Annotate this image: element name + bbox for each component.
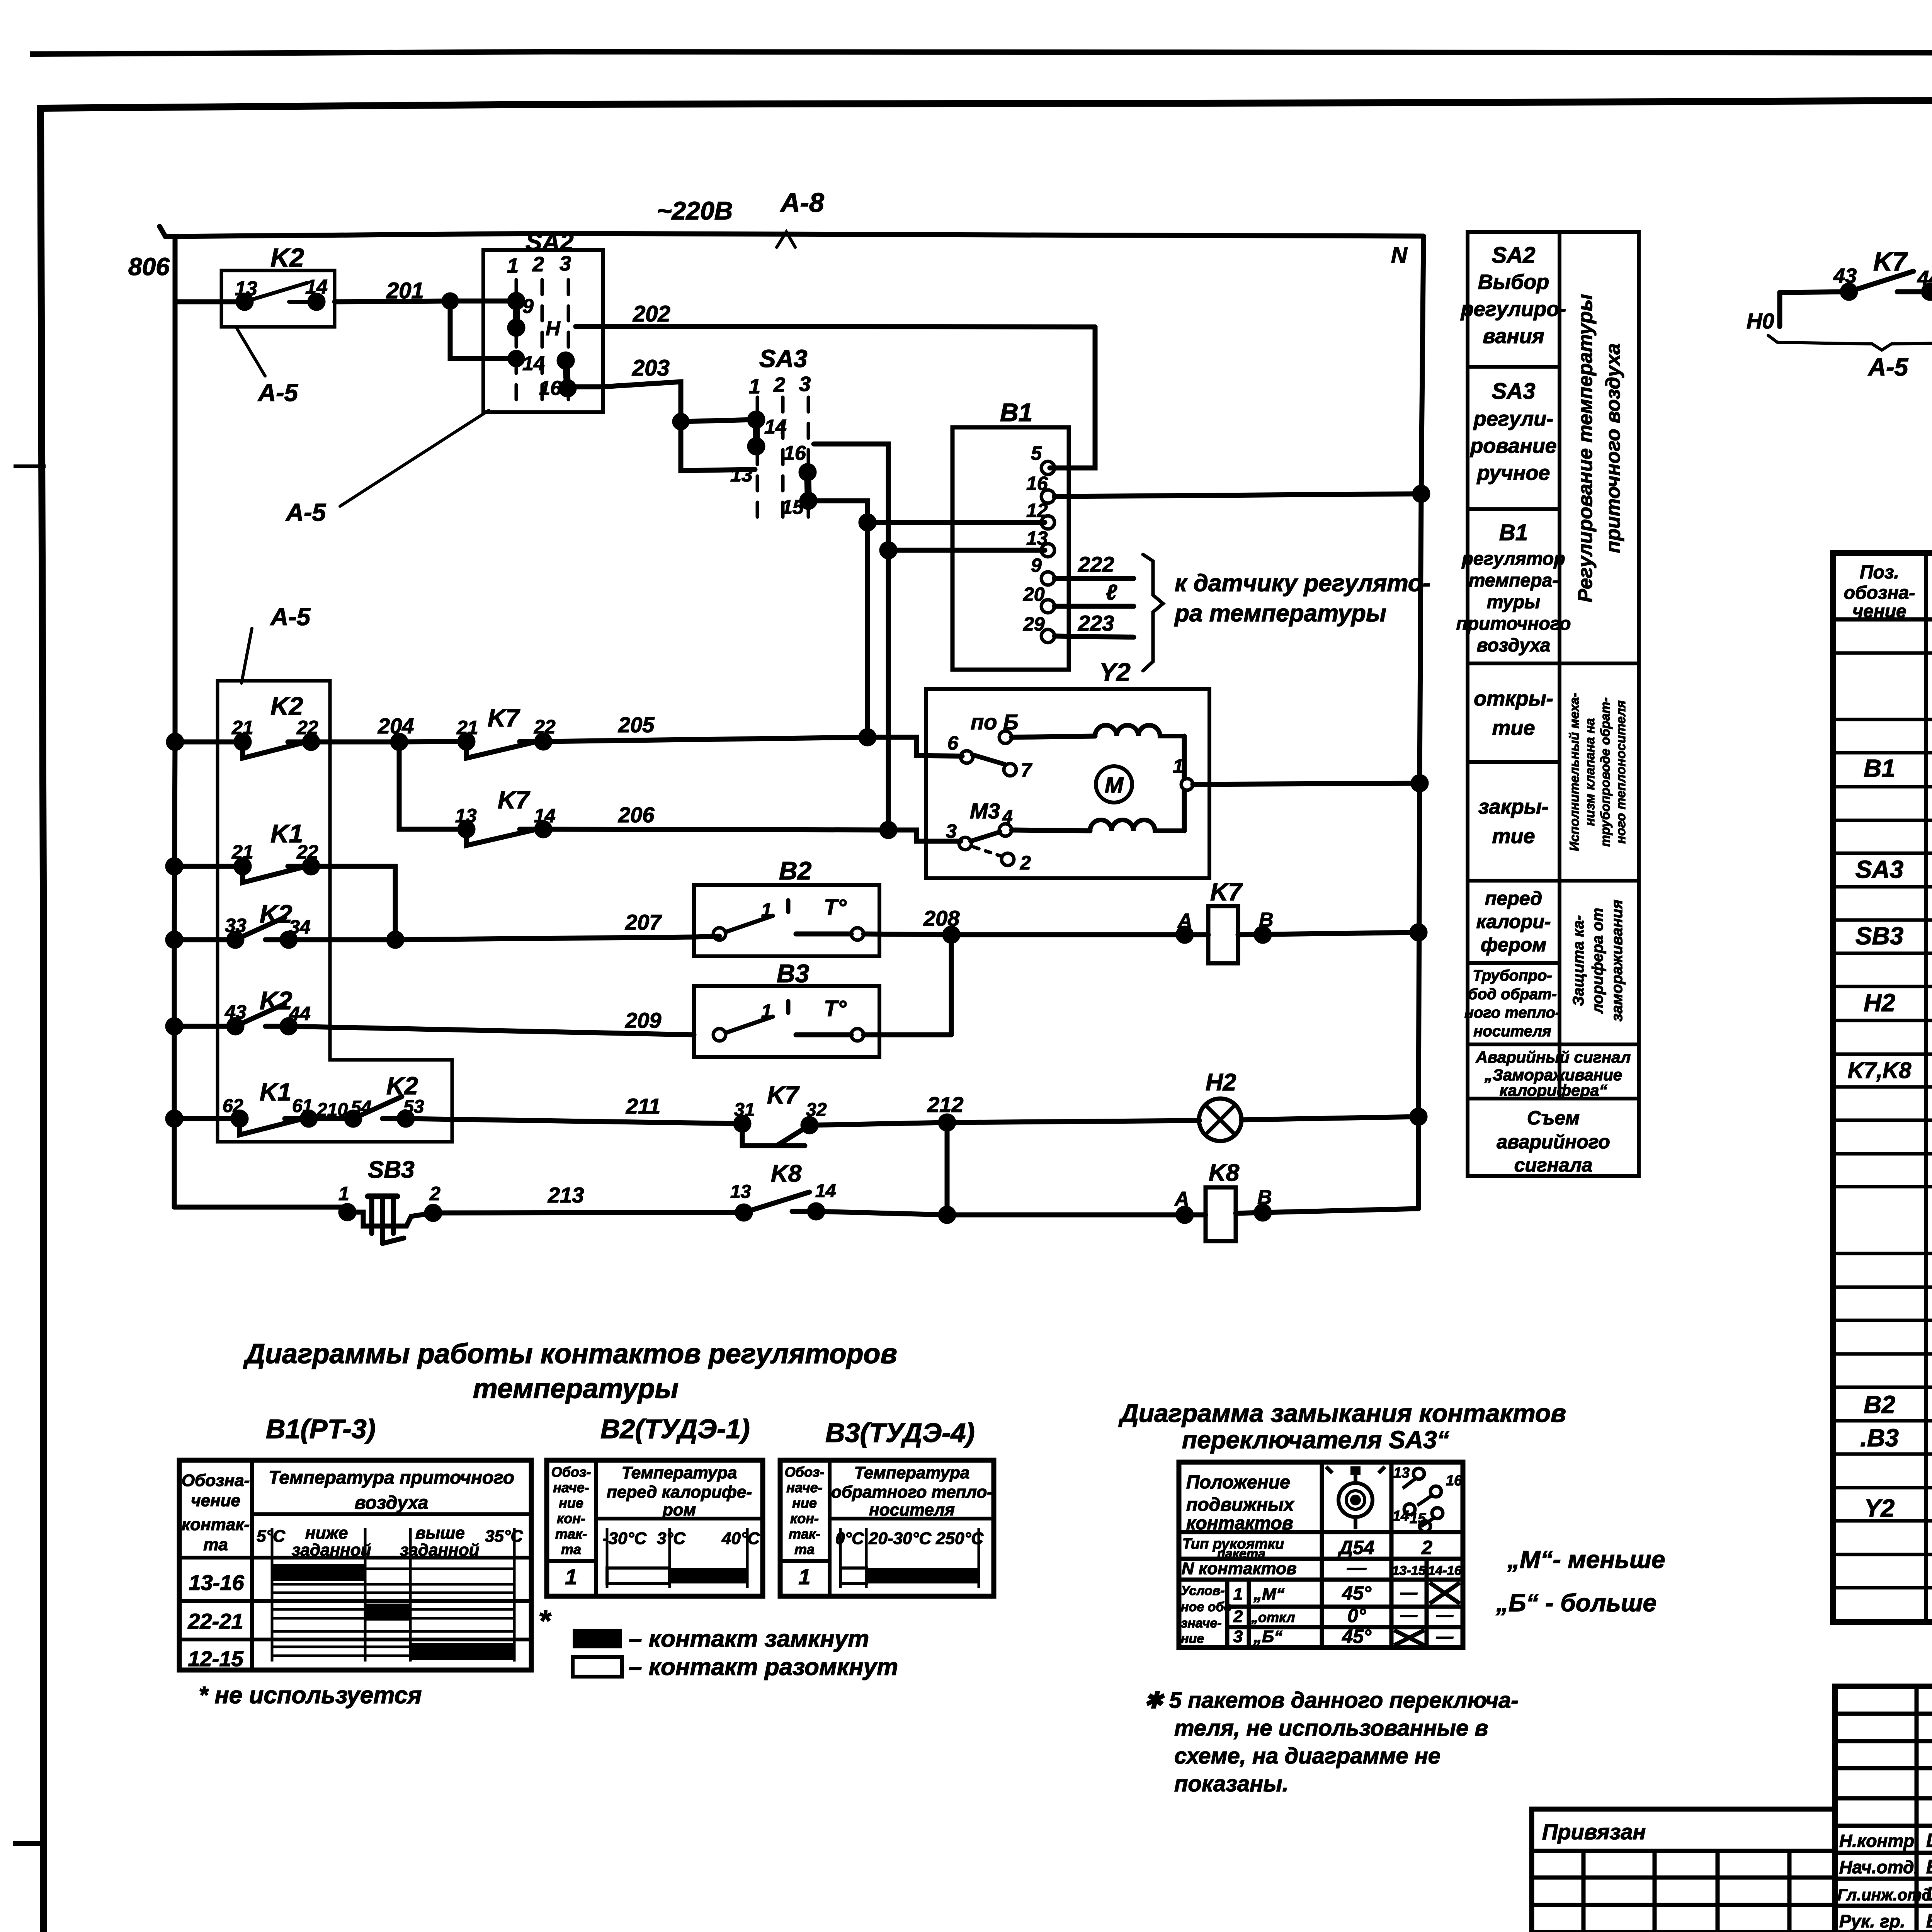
- svg-text:B1: B1: [1499, 520, 1528, 545]
- svg-text:тие: тие: [1492, 716, 1535, 740]
- svg-text:воздуха: воздуха: [355, 1493, 429, 1513]
- U2 contact 7: [1004, 764, 1016, 776]
- svg-text:по Б: по Б: [971, 710, 1019, 734]
- svg-text:K2: K2: [386, 1072, 418, 1100]
- svg-text:Выбор: Выбор: [1478, 270, 1549, 294]
- svg-text:3: 3: [1233, 1627, 1243, 1646]
- wire 204: [311, 742, 466, 742]
- wire 206: [543, 829, 961, 841]
- svg-text:—: —: [1400, 1583, 1418, 1602]
- B1 bars row3: [272, 1647, 410, 1656]
- svg-text:Исполнительный меха-: Исполнительный меха-: [1567, 693, 1582, 851]
- wire coil to pin1 corner: [1182, 736, 1187, 779]
- svg-text:Привязан: Привязан: [1542, 1820, 1646, 1844]
- B1 filled bar 13-16: [272, 1564, 365, 1581]
- svg-text:202: 202: [633, 301, 670, 327]
- svg-text:Шилов: Шилов: [1926, 1830, 1932, 1851]
- svg-text:Обоз-: Обоз-: [551, 1464, 591, 1480]
- svg-text:35°C: 35°C: [485, 1527, 524, 1546]
- svg-text:0°: 0°: [1347, 1605, 1366, 1626]
- wire row213 left: [174, 1205, 349, 1210]
- svg-text:– контакт разомкнут: – контакт разомкнут: [629, 1654, 898, 1680]
- svg-text:16: 16: [1026, 473, 1048, 494]
- svg-text:-30°С: -30°С: [603, 1529, 647, 1548]
- svg-text:53: 53: [403, 1097, 424, 1117]
- U2 pin 1: [1181, 779, 1193, 790]
- drawing frame top: [41, 97, 1932, 108]
- B2 right terminal: [851, 928, 864, 940]
- svg-text:B3(ТУДЭ-4): B3(ТУДЭ-4): [825, 1418, 975, 1448]
- sheet outer border top: [32, 52, 1932, 54]
- svg-text:29: 29: [1023, 613, 1045, 635]
- svg-text:кон-: кон-: [790, 1510, 819, 1526]
- svg-text:низм клапана на: низм клапана на: [1583, 718, 1597, 826]
- svg-text:тие: тие: [1492, 825, 1535, 848]
- svg-text:54: 54: [351, 1097, 371, 1118]
- svg-text:B2: B2: [1864, 1391, 1895, 1418]
- contact K7 43-44 (H0-H1 diagram): [1780, 271, 1932, 293]
- svg-text:„Б“ - больше: „Б“ - больше: [1496, 1589, 1656, 1617]
- svg-text:бод обрат-: бод обрат-: [1468, 986, 1557, 1003]
- svg-text:Диаграммы работы контактов рег: Диаграммы работы контактов регуляторов: [243, 1338, 897, 1369]
- svg-text:16: 16: [784, 442, 806, 464]
- wire ~220V phase bus A-8: [160, 226, 1423, 236]
- svg-text:1: 1: [1233, 1585, 1243, 1604]
- contact K2 43-44 row209: [174, 1004, 289, 1026]
- svg-text:схеме, на диаграмме не: схеме, на диаграмме не: [1174, 1743, 1440, 1769]
- U2 contact 3: [959, 837, 971, 850]
- relay box K2 top: [221, 270, 335, 327]
- svg-text:воздуха: воздуха: [1477, 635, 1551, 656]
- svg-text:A-5: A-5: [257, 379, 299, 406]
- svg-text:„откл: „откл: [1251, 1609, 1295, 1625]
- relay coil K7: [1208, 906, 1238, 963]
- U2 switch arm 6-7: [972, 755, 1005, 764]
- wire 209: [289, 1026, 951, 1035]
- SA3 contacts mini diagram: [1403, 1468, 1443, 1532]
- svg-text:2: 2: [1233, 1607, 1243, 1626]
- svg-text:Диаграмма замыкания контактов: Диаграмма замыкания контактов: [1118, 1399, 1566, 1427]
- svg-text:A: A: [1174, 1188, 1189, 1210]
- SA2 dashed column 3: [567, 280, 570, 403]
- svg-text:теля, не использованные в: теля, не использованные в: [1174, 1716, 1488, 1741]
- svg-text:B2: B2: [779, 856, 812, 885]
- svg-text:так-: так-: [555, 1526, 587, 1542]
- svg-text:регулиро-: регулиро-: [1460, 298, 1566, 321]
- U2 contact 2: [1002, 853, 1014, 866]
- svg-text:приточного: приточного: [1456, 614, 1571, 634]
- svg-text:21: 21: [231, 841, 253, 863]
- svg-text:22: 22: [296, 841, 318, 863]
- brace A-5 under H0H1: [1768, 335, 1932, 350]
- svg-text:Услов-: Услов-: [1181, 1583, 1225, 1598]
- switch SA2 box: [483, 250, 603, 412]
- B1 filled bar 12-15: [410, 1643, 514, 1660]
- svg-text:12-15: 12-15: [188, 1646, 243, 1671]
- svg-text:13: 13: [730, 464, 753, 486]
- svg-text:15: 15: [1410, 1510, 1426, 1527]
- thermostat B3 box: [694, 986, 879, 1057]
- wire N bus vertical: [1418, 236, 1423, 1207]
- U2 contact 6: [961, 751, 973, 763]
- svg-text:„Б“: „Б“: [1253, 1627, 1282, 1646]
- svg-text:лорифера от: лорифера от: [1589, 908, 1606, 1014]
- svg-text:A-8: A-8: [780, 187, 824, 218]
- svg-text:так-: так-: [789, 1526, 820, 1542]
- wire 203 branch upper to SA3 14: [681, 420, 755, 422]
- svg-text:12: 12: [1026, 500, 1048, 521]
- svg-text:переключателя SA3“: переключателя SA3“: [1182, 1426, 1449, 1454]
- svg-text:обозна-: обозна-: [1844, 583, 1915, 603]
- svg-text:Положение: Положение: [1186, 1472, 1290, 1493]
- wire 212 drop to row213: [945, 1122, 950, 1215]
- wire 201 branch to contact 14: [450, 301, 517, 359]
- wire node V2 to B1 pin13: [888, 548, 1045, 553]
- relay box K2 A-5 (large): [218, 681, 452, 1142]
- U2 switch arm 3-4: [971, 832, 1000, 841]
- B1 pin 16: [1041, 490, 1054, 503]
- svg-text:K7: K7: [767, 1081, 800, 1109]
- B1 pin 29: [1041, 629, 1054, 643]
- B1 bars row2: [272, 1609, 514, 1631]
- svg-text:1: 1: [338, 1183, 349, 1204]
- svg-text:подвижных: подвижных: [1186, 1495, 1295, 1515]
- switch SA3 dashed column 2: [781, 397, 785, 522]
- svg-text:рование: рование: [1469, 434, 1557, 457]
- svg-text:фером: фером: [1481, 934, 1546, 956]
- svg-text:ние: ние: [1181, 1631, 1204, 1646]
- svg-text:2: 2: [773, 373, 785, 396]
- wire 223 from B1 pin29: [1054, 636, 1134, 637]
- svg-text:205: 205: [618, 713, 655, 737]
- svg-text:1: 1: [798, 1565, 810, 1589]
- wire H2 to N bus: [1242, 1117, 1418, 1120]
- svg-text:206: 206: [618, 803, 655, 827]
- svg-text:значе-: значе-: [1181, 1616, 1222, 1631]
- wire 204 branch down to K7 13: [399, 742, 466, 829]
- svg-text:22: 22: [296, 717, 318, 738]
- contact K2 21-22 row204: [175, 742, 311, 758]
- B3 contact arm: [726, 1001, 788, 1033]
- svg-text:K2: K2: [270, 243, 304, 272]
- svg-text:22: 22: [534, 716, 556, 738]
- contact K2 54-53 row211: [309, 1097, 406, 1119]
- wire U2 4 to lower coil: [1012, 830, 1090, 831]
- B2 contact arm: [726, 900, 788, 932]
- svg-text:K7: K7: [498, 786, 531, 814]
- wire SA3-16 to node V2: [814, 444, 888, 830]
- svg-text:ное обо-: ное обо-: [1181, 1600, 1236, 1614]
- SA3 position table: [1179, 1462, 1463, 1648]
- svg-text:перед калорифе-: перед калорифе-: [607, 1483, 752, 1502]
- svg-text:регули-: регули-: [1473, 407, 1553, 430]
- svg-text:14: 14: [764, 416, 787, 438]
- svg-text:A: A: [1177, 910, 1192, 932]
- svg-text:13-16: 13-16: [189, 1570, 244, 1595]
- svg-text:22-21: 22-21: [187, 1609, 243, 1633]
- svg-text:211: 211: [626, 1094, 660, 1118]
- wire K7 coil B side to N: [1238, 932, 1418, 935]
- legend closed contact: [573, 1629, 622, 1648]
- svg-text:A-5: A-5: [1867, 353, 1909, 381]
- svg-text:5: 5: [1031, 442, 1042, 464]
- svg-text:ра температуры: ра температуры: [1174, 600, 1386, 627]
- svg-text:B1(PT-3): B1(PT-3): [266, 1414, 376, 1444]
- svg-text:3°С: 3°С: [657, 1529, 686, 1548]
- svg-text:перед: перед: [1485, 888, 1542, 909]
- svg-text:заданной: заданной: [400, 1541, 480, 1560]
- B2 filled bar: [670, 1568, 747, 1583]
- svg-text:Температура: Температура: [622, 1463, 737, 1482]
- svg-text:—: —: [1436, 1605, 1454, 1624]
- svg-text:.B3: .B3: [1860, 1424, 1899, 1452]
- svg-text:T°: T°: [824, 996, 847, 1021]
- B3 wire inside: [796, 1032, 851, 1037]
- contact K1 21-22: [174, 866, 311, 883]
- svg-text:„М“: „М“: [1253, 1585, 1285, 1604]
- diagram table B2: [547, 1460, 763, 1596]
- diagram table B3: [780, 1460, 994, 1596]
- svg-text:B: B: [1259, 909, 1274, 931]
- svg-text:1: 1: [507, 254, 519, 277]
- B3 filled bar: [866, 1568, 979, 1583]
- motor M circle: [1096, 766, 1132, 803]
- U2 contact B: [999, 731, 1012, 743]
- svg-text:21: 21: [231, 717, 253, 738]
- svg-text:13: 13: [730, 1182, 751, 1202]
- svg-text:43: 43: [224, 1001, 247, 1023]
- svg-text:B3: B3: [777, 959, 809, 988]
- svg-text:закры-: закры-: [1478, 795, 1549, 818]
- svg-text:Инв.№: Инв.№: [1539, 1930, 1601, 1932]
- svg-text:Гл.инж.отд: Гл.инж.отд: [1837, 1886, 1932, 1904]
- svg-text:16: 16: [1446, 1473, 1463, 1489]
- svg-text:K7: K7: [1210, 878, 1243, 906]
- svg-text:14: 14: [1393, 1508, 1409, 1524]
- svg-text:Н.контр.: Н.контр.: [1839, 1831, 1919, 1851]
- svg-text:Д54: Д54: [1337, 1537, 1374, 1558]
- U2 dashed arm 3-2: [974, 847, 1002, 856]
- svg-text:обратного тепло-: обратного тепло-: [831, 1483, 993, 1502]
- svg-text:Ст.инж.: Ст.инж.: [1839, 1930, 1912, 1932]
- contact K2 13-14 (top row): [245, 283, 316, 302]
- svg-text:1: 1: [761, 1000, 772, 1022]
- svg-text:калорифера“: калорифера“: [1500, 1081, 1607, 1099]
- svg-text:A-5: A-5: [285, 498, 327, 526]
- svg-text:SB3: SB3: [368, 1156, 415, 1183]
- svg-text:~220B: ~220B: [657, 196, 733, 225]
- parts table: [1833, 553, 1932, 1622]
- B3 open bar: [840, 1568, 866, 1583]
- svg-text:1: 1: [565, 1565, 577, 1589]
- svg-text:* не используется: * не используется: [199, 1682, 422, 1709]
- wire H0 drop: [1777, 293, 1782, 327]
- B2 open bar: [607, 1568, 670, 1583]
- svg-text:контак-: контак-: [182, 1515, 250, 1534]
- svg-text:61: 61: [292, 1096, 313, 1116]
- svg-text:203: 203: [632, 355, 670, 381]
- svg-text:3: 3: [799, 372, 811, 396]
- svg-text:Ефремова: Ефремова: [1926, 1910, 1932, 1932]
- svg-text:Шилов: Шилов: [1926, 1883, 1932, 1905]
- svg-text:Нач.отд.: Нач.отд.: [1839, 1857, 1919, 1877]
- SA2 contact 14 dot: [510, 352, 522, 365]
- svg-text:7: 7: [1021, 759, 1032, 781]
- relay coil K8: [1206, 1187, 1236, 1241]
- svg-text:B1: B1: [1864, 754, 1895, 782]
- wire SA3-15 to node V1: [814, 501, 867, 737]
- svg-text:ного теплоносителя: ного теплоносителя: [1614, 700, 1628, 844]
- svg-text:N контактов: N контактов: [1182, 1559, 1297, 1578]
- svg-text:✱ 5 пакетов данного переключа-: ✱ 5 пакетов данного переключа-: [1144, 1688, 1519, 1713]
- svg-text:204: 204: [378, 714, 414, 738]
- svg-text:контактов: контактов: [1186, 1513, 1293, 1534]
- B1 pin 9: [1041, 572, 1054, 585]
- contact K7 31-32 row211: [742, 1124, 810, 1146]
- SA2 pole bridge col1: [513, 301, 520, 328]
- svg-text:4: 4: [1002, 807, 1013, 827]
- button SB3: [341, 1206, 354, 1219]
- SA2 dashed column 2: [541, 280, 544, 403]
- svg-text:Y2: Y2: [1864, 1494, 1895, 1522]
- wire B3 output up to node 208: [949, 935, 954, 1035]
- svg-text:13-15: 13-15: [1392, 1563, 1426, 1578]
- wire B1 pin16 to N bus: [1054, 494, 1421, 497]
- svg-text:Рук. гр.: Рук. гр.: [1839, 1911, 1905, 1931]
- svg-text:212: 212: [927, 1092, 963, 1117]
- svg-text:62: 62: [223, 1096, 243, 1116]
- wire K7 coil A side: [1178, 928, 1191, 941]
- B1 bars row1: [272, 1569, 514, 1593]
- svg-text:15: 15: [781, 496, 804, 519]
- svg-text:6: 6: [947, 732, 959, 754]
- svg-text:201: 201: [386, 278, 424, 303]
- SA3 cross cell row1 col3b: [1430, 1583, 1460, 1604]
- svg-text:13: 13: [1026, 527, 1048, 549]
- contact K1 62-61 row211: [174, 1119, 309, 1135]
- svg-text:21: 21: [456, 717, 478, 738]
- B1 filled bar 22-21: [365, 1604, 410, 1621]
- svg-text:34: 34: [289, 916, 311, 938]
- wire 203 branch lower to SA3 13: [681, 422, 755, 471]
- svg-text:ние: ние: [792, 1495, 817, 1511]
- svg-text:—: —: [1400, 1605, 1418, 1624]
- svg-text:замораживания: замораживания: [1609, 900, 1626, 1021]
- svg-text:Обоз-: Обоз-: [785, 1464, 825, 1480]
- svg-text:32: 32: [806, 1100, 827, 1120]
- B2 left terminal: [713, 928, 726, 940]
- svg-text:31: 31: [734, 1100, 755, 1120]
- svg-text:223: 223: [1078, 611, 1114, 635]
- svg-text:222: 222: [1078, 552, 1114, 577]
- svg-text:Защита ка-: Защита ка-: [1570, 915, 1587, 1006]
- svg-text:14-16: 14-16: [1428, 1563, 1462, 1578]
- svg-text:209: 209: [625, 1008, 661, 1032]
- wire K8 coil B to N bus: [1236, 1209, 1418, 1213]
- svg-text:M3: M3: [970, 799, 1000, 823]
- svg-text:K8: K8: [771, 1160, 802, 1187]
- svg-text:*: *: [538, 1604, 552, 1638]
- svg-text:213: 213: [548, 1183, 584, 1207]
- wire K1-22 down to row207: [311, 866, 395, 940]
- svg-text:Y2: Y2: [1099, 658, 1131, 686]
- svg-text:14: 14: [534, 805, 556, 827]
- svg-text:—: —: [1436, 1627, 1454, 1646]
- svg-text:та: та: [203, 1535, 228, 1554]
- svg-text:вания: вания: [1483, 325, 1544, 348]
- SA2 dashed column 1: [515, 280, 518, 403]
- diagram table B1: [179, 1460, 531, 1670]
- wire 211: [406, 1119, 742, 1124]
- svg-text:13: 13: [235, 277, 257, 300]
- svg-text:2: 2: [532, 253, 544, 276]
- svg-text:208: 208: [923, 906, 960, 930]
- B1 pin 5: [1041, 461, 1054, 474]
- upper coil of U2 motor: [1095, 725, 1184, 736]
- wire 208: [864, 934, 1208, 935]
- wire 222 from B1 pin9: [1054, 576, 1134, 581]
- svg-text:Белов: Белов: [1926, 1856, 1932, 1878]
- svg-text:207: 207: [625, 910, 662, 934]
- svg-text:1: 1: [761, 899, 772, 921]
- svg-text:3: 3: [946, 820, 957, 842]
- leader A-5 to K2 top box: [237, 328, 265, 376]
- wire 205: [543, 737, 962, 756]
- svg-text:наче-: наче-: [786, 1480, 822, 1495]
- svg-text:33: 33: [225, 915, 247, 936]
- thermostat B2 box: [694, 885, 879, 956]
- svg-text:B1: B1: [1000, 398, 1032, 427]
- svg-text:B2(ТУДЭ-1): B2(ТУДЭ-1): [600, 1414, 750, 1444]
- svg-text:регулятор: регулятор: [1461, 549, 1565, 569]
- svg-text:чение: чение: [191, 1491, 240, 1510]
- wire 202 drop to B1 pin5: [1050, 327, 1095, 468]
- svg-text:B: B: [1257, 1186, 1272, 1209]
- svg-text:откры-: откры-: [1474, 687, 1553, 710]
- svg-text:Температура: Температура: [854, 1463, 970, 1482]
- svg-text:H2: H2: [1206, 1069, 1236, 1096]
- svg-text:ного тепло-: ного тепло-: [1464, 1004, 1560, 1021]
- B2 wire inside: [796, 932, 851, 937]
- svg-text:K7,K8: K7,K8: [1848, 1058, 1912, 1083]
- svg-text:Аварийный сигнал: Аварийный сигнал: [1476, 1048, 1631, 1066]
- svg-text:K2: K2: [270, 692, 303, 720]
- svg-text:SA2: SA2: [1492, 243, 1536, 268]
- B1 pin 20: [1041, 600, 1054, 613]
- switch SA3 dashed column 1: [756, 397, 759, 522]
- leader A-5 to SA2 box: [340, 410, 489, 506]
- svg-text:1: 1: [749, 375, 760, 398]
- svg-text:N: N: [1391, 243, 1408, 268]
- wire node V1 to B1 pin12: [867, 520, 1045, 525]
- wire break mark on bus: [777, 232, 795, 247]
- svg-text:Температура приточного: Температура приточного: [269, 1468, 514, 1488]
- svg-text:приточного воздуха: приточного воздуха: [1602, 344, 1624, 553]
- B1 pin 13: [1041, 544, 1054, 557]
- svg-text:T°: T°: [824, 895, 847, 920]
- svg-text:ниже: ниже: [305, 1524, 348, 1543]
- svg-text:к датчику регулято-: к датчику регулято-: [1175, 570, 1430, 597]
- wire 213: [433, 1211, 1206, 1215]
- svg-text:40°С: 40°С: [721, 1529, 760, 1548]
- svg-text:K1: K1: [260, 1078, 291, 1106]
- svg-text:3: 3: [560, 252, 571, 275]
- brace to temperature sensor: [1143, 554, 1163, 671]
- svg-text:SB3: SB3: [1855, 922, 1904, 950]
- svg-text:20: 20: [1023, 583, 1045, 605]
- svg-text:M: M: [1105, 773, 1124, 798]
- svg-text:туры: туры: [1487, 592, 1541, 612]
